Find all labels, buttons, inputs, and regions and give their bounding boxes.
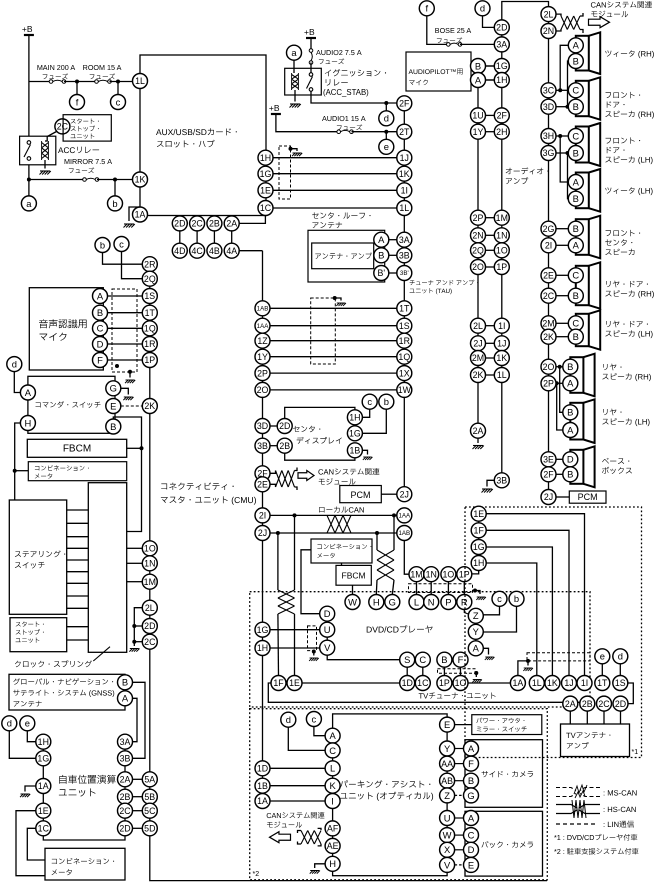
pin 1N amp bbox=[494, 228, 509, 243]
label fuse bbox=[437, 37, 462, 43]
pin 1L amp bbox=[494, 368, 509, 383]
wire bbox=[276, 114, 337, 132]
svg-text:1A: 1A bbox=[38, 781, 49, 791]
svg-text:3B: 3B bbox=[120, 753, 131, 763]
svg-text:1R: 1R bbox=[399, 336, 410, 346]
pin B rear speaker LH bbox=[563, 405, 578, 420]
wire bbox=[376, 533, 378, 550]
svg-text:2L: 2L bbox=[473, 321, 483, 331]
CAN module arrow bbox=[589, 17, 610, 28]
svg-text:PCM: PCM bbox=[578, 492, 598, 502]
connector d bbox=[281, 712, 296, 727]
wire bbox=[274, 173, 397, 175]
wire bbox=[134, 641, 142, 643]
pin B camera bbox=[464, 773, 479, 788]
svg-text:a: a bbox=[26, 198, 32, 209]
pin C front door speaker RH bbox=[568, 83, 583, 98]
pin 2E CMU bbox=[255, 477, 270, 492]
pin 2D position unit bbox=[118, 821, 133, 836]
svg-text:1J: 1J bbox=[497, 338, 506, 348]
wire bbox=[557, 383, 563, 430]
wire bbox=[311, 91, 397, 103]
pin G commander bbox=[106, 381, 121, 396]
pin 1Y CMU bbox=[255, 349, 270, 364]
wire bbox=[422, 667, 424, 675]
svg-text:B: B bbox=[567, 407, 573, 418]
junction bbox=[293, 513, 297, 517]
wire bbox=[556, 295, 568, 297]
wire bbox=[475, 591, 480, 595]
pin 2F bbox=[541, 467, 556, 482]
pin 2K bbox=[541, 329, 556, 344]
pin 1J amp bbox=[494, 336, 509, 351]
svg-text:1Q: 1Q bbox=[144, 323, 156, 333]
svg-text:C: C bbox=[419, 654, 426, 665]
wire bbox=[76, 82, 78, 95]
pin 1AA bbox=[397, 508, 412, 523]
svg-text:U: U bbox=[444, 812, 451, 823]
wire bbox=[16, 811, 45, 876]
svg-text:H: H bbox=[373, 596, 380, 607]
junction bbox=[132, 624, 136, 628]
wire bbox=[15, 470, 29, 472]
junction bbox=[27, 178, 31, 182]
svg-text:1N: 1N bbox=[426, 569, 437, 579]
svg-text:(ACC_STAB): (ACC_STAB) bbox=[323, 88, 369, 97]
wire R-Z bbox=[464, 609, 471, 615]
svg-text:1K: 1K bbox=[399, 169, 410, 179]
wire bbox=[556, 29, 561, 31]
wire bbox=[270, 425, 277, 427]
svg-text:G: G bbox=[389, 596, 396, 607]
wire bbox=[298, 842, 302, 845]
ground bbox=[290, 104, 301, 108]
label GNSS2 bbox=[13, 690, 114, 697]
wire bbox=[430, 582, 432, 595]
label steering1 bbox=[15, 550, 65, 557]
pin B antenna bbox=[374, 248, 389, 263]
svg-text:2N: 2N bbox=[472, 230, 483, 240]
svg-text:1T: 1T bbox=[145, 308, 156, 318]
svg-text:1I: 1I bbox=[401, 185, 408, 195]
label position unit1 bbox=[59, 775, 116, 784]
pin C DVD bbox=[415, 652, 430, 667]
wire bbox=[270, 785, 325, 787]
legend HS-CAN lines3 bbox=[579, 805, 600, 809]
pin B' antenna bbox=[374, 266, 389, 281]
svg-text:1D: 1D bbox=[257, 763, 268, 773]
pin I parking bbox=[325, 794, 340, 809]
wire V-S bbox=[327, 655, 400, 660]
junction bbox=[312, 650, 316, 654]
HS-CAN twisted pair bbox=[377, 550, 394, 580]
wire bbox=[556, 473, 563, 475]
svg-text:2J: 2J bbox=[258, 528, 267, 538]
pin 4C hub mate bbox=[190, 243, 205, 258]
junction bbox=[333, 296, 337, 300]
svg-text:W: W bbox=[348, 596, 357, 607]
pin 2A hub bbox=[224, 216, 239, 231]
svg-text:1AA: 1AA bbox=[398, 513, 411, 520]
svg-text:A: A bbox=[573, 40, 580, 51]
svg-text:c: c bbox=[119, 238, 124, 249]
pin R DVD bbox=[457, 595, 472, 610]
connector d bbox=[2, 716, 17, 731]
relay contact bbox=[24, 141, 31, 161]
connector a bbox=[21, 196, 36, 211]
label note2 bbox=[554, 848, 638, 855]
wire bbox=[455, 794, 464, 796]
label steering2 bbox=[15, 562, 45, 569]
ground bbox=[20, 794, 30, 797]
label tweeter LH bbox=[605, 187, 652, 195]
relay coil bbox=[42, 141, 49, 160]
svg-text:3H: 3H bbox=[543, 131, 554, 141]
label ignition relay2 bbox=[326, 79, 348, 85]
wire bbox=[455, 817, 464, 819]
junction bbox=[566, 105, 570, 109]
pin 2K bbox=[471, 368, 486, 383]
svg-text:K: K bbox=[329, 780, 336, 791]
svg-text:D: D bbox=[324, 608, 331, 619]
pin 3H bbox=[541, 129, 556, 144]
wire bbox=[463, 582, 465, 595]
connector d bbox=[613, 649, 628, 664]
wire bbox=[483, 606, 499, 615]
wire rung bbox=[67, 582, 89, 584]
bus wire bbox=[124, 742, 126, 836]
wire bbox=[567, 61, 570, 107]
label LIN bbox=[604, 821, 634, 828]
svg-text:1Y: 1Y bbox=[257, 352, 268, 362]
svg-text:2H: 2H bbox=[496, 127, 507, 137]
wire bbox=[556, 228, 568, 230]
wire bbox=[270, 647, 320, 649]
wire rung bbox=[67, 639, 89, 641]
wire 2B-1B bbox=[285, 453, 355, 460]
pin 1Z CMU bbox=[255, 333, 270, 348]
pin A tweeter RH bbox=[568, 38, 583, 53]
wire bbox=[9, 731, 36, 759]
svg-text:2A: 2A bbox=[226, 219, 237, 229]
svg-text:+B: +B bbox=[304, 27, 315, 37]
connector b bbox=[509, 591, 524, 606]
svg-text:1J: 1J bbox=[564, 678, 573, 688]
label back camera bbox=[482, 841, 534, 848]
wire bbox=[416, 582, 418, 595]
wire bbox=[270, 340, 397, 342]
svg-text:*2: *2 bbox=[253, 871, 260, 878]
svg-text:*1: *1 bbox=[632, 749, 639, 756]
svg-text:b: b bbox=[112, 198, 117, 209]
label stop bbox=[71, 126, 99, 132]
pin E camera bbox=[464, 857, 479, 872]
pin 2J CMU bbox=[255, 526, 270, 541]
label start2c bbox=[16, 638, 40, 643]
wire bbox=[28, 35, 30, 136]
wire bbox=[475, 673, 477, 677]
wire bbox=[117, 82, 119, 95]
wire bbox=[385, 132, 387, 140]
pin B tweeter LH bbox=[568, 191, 583, 206]
wire bbox=[556, 336, 568, 338]
wire bbox=[270, 629, 320, 631]
wire bbox=[556, 135, 568, 137]
wire FBCM-W bbox=[352, 585, 354, 594]
pin L parking bbox=[325, 761, 340, 776]
pin 3B' TAU bbox=[397, 266, 412, 281]
junction bbox=[473, 589, 477, 593]
pin W DVD bbox=[345, 595, 360, 610]
wire bbox=[318, 828, 321, 830]
junction bbox=[558, 365, 562, 369]
pin 1H amp bbox=[494, 73, 509, 88]
pin 2H amp bbox=[494, 124, 509, 139]
wire bbox=[127, 581, 143, 583]
svg-text:1X: 1X bbox=[399, 368, 410, 378]
wire bbox=[460, 667, 462, 675]
svg-text:U: U bbox=[324, 624, 331, 635]
bus wire bbox=[548, 7, 550, 497]
wire bbox=[486, 342, 495, 344]
label combination meter2b bbox=[52, 869, 72, 875]
pin 1I tuner bbox=[577, 676, 592, 691]
junction bbox=[558, 134, 562, 138]
pin U parking bbox=[440, 811, 455, 826]
svg-text:2D: 2D bbox=[615, 699, 626, 709]
ground bbox=[363, 457, 373, 460]
wire bbox=[133, 698, 138, 741]
svg-text:2C: 2C bbox=[144, 637, 156, 647]
svg-text:A: A bbox=[475, 74, 482, 85]
wire bbox=[134, 625, 142, 627]
start-stop unit box bbox=[63, 115, 111, 141]
pin 2P bbox=[471, 210, 486, 225]
pin D bass box bbox=[563, 452, 578, 467]
pin 2P bbox=[541, 376, 556, 391]
pin Y DVD bbox=[468, 624, 483, 639]
pin 1H bbox=[258, 150, 273, 165]
pin 1N CMU bbox=[142, 556, 157, 571]
svg-text:AA: AA bbox=[441, 759, 453, 769]
svg-text:2N: 2N bbox=[543, 26, 554, 36]
label fuse bbox=[43, 73, 68, 79]
pin AA parking bbox=[440, 756, 455, 771]
label MS-CAN bbox=[604, 790, 637, 795]
svg-text:E: E bbox=[110, 400, 116, 411]
wire 5D out bbox=[150, 836, 547, 881]
svg-text:e: e bbox=[25, 718, 30, 729]
wire bbox=[108, 327, 143, 329]
wire bbox=[270, 767, 325, 769]
pin C rear door speaker LH bbox=[568, 316, 583, 331]
svg-text:1H: 1H bbox=[257, 643, 268, 653]
pin E parking bbox=[440, 717, 455, 732]
wire bbox=[487, 480, 494, 486]
pin 1AB bbox=[397, 526, 412, 541]
wire bbox=[196, 231, 198, 243]
wire bbox=[270, 325, 397, 327]
wire bbox=[483, 16, 495, 28]
pin 2A mate bbox=[471, 423, 486, 438]
wire bbox=[44, 160, 46, 169]
svg-text:B: B bbox=[122, 677, 128, 688]
shield bbox=[409, 584, 473, 593]
pin 1C position unit bbox=[36, 821, 51, 836]
ground bbox=[472, 680, 482, 683]
ground bbox=[336, 303, 346, 306]
wire bbox=[133, 810, 143, 812]
pin 1G bbox=[258, 166, 273, 181]
bus wire bbox=[475, 616, 477, 649]
pin G DVD bbox=[385, 595, 400, 610]
svg-text:1Y: 1Y bbox=[473, 127, 484, 137]
wire bbox=[486, 217, 495, 219]
pin 1F DVD bbox=[271, 676, 286, 691]
wire bbox=[25, 786, 36, 792]
legend MS-CAN lines3 bbox=[580, 788, 600, 791]
pin A antenna bbox=[374, 232, 389, 247]
svg-text:2B: 2B bbox=[582, 699, 593, 709]
pin 1Q CMU bbox=[142, 321, 157, 336]
svg-text:2C: 2C bbox=[543, 291, 555, 301]
wire bbox=[310, 38, 312, 49]
wire bbox=[455, 834, 464, 836]
svg-text:B: B bbox=[573, 147, 579, 158]
ground bbox=[476, 597, 486, 600]
svg-text:5C: 5C bbox=[144, 806, 156, 816]
bus wire bbox=[501, 27, 503, 480]
pin Y parking bbox=[440, 741, 455, 756]
svg-text:1C: 1C bbox=[417, 678, 429, 688]
pin 2C position unit bbox=[118, 803, 133, 818]
label AUDIOPILOT bbox=[409, 69, 463, 75]
pin 2L CMU bbox=[142, 600, 157, 615]
svg-text:B: B bbox=[567, 469, 573, 480]
wire bbox=[486, 325, 495, 327]
wire bbox=[294, 614, 296, 676]
pin 4A hub mate bbox=[224, 243, 239, 258]
label front center speaker bbox=[606, 230, 641, 236]
wire B commander bbox=[113, 417, 141, 532]
svg-text:B: B bbox=[573, 193, 579, 204]
wire bbox=[486, 514, 584, 676]
svg-text:2F: 2F bbox=[399, 98, 410, 108]
wire bbox=[362, 409, 369, 417]
svg-text:PCM: PCM bbox=[351, 490, 371, 500]
pin 4B hub mate bbox=[207, 243, 222, 258]
wire rung bbox=[67, 571, 89, 573]
HS-CAN twisted pair bbox=[278, 590, 295, 614]
wire bbox=[455, 748, 464, 750]
svg-text:2B: 2B bbox=[279, 441, 290, 451]
svg-text:A: A bbox=[473, 643, 480, 654]
speaker front door speaker LH bbox=[576, 123, 600, 166]
svg-text:C: C bbox=[572, 85, 579, 96]
pin 1S CMU bbox=[142, 289, 157, 304]
wire bbox=[569, 711, 571, 724]
label rear door speaker LH bbox=[606, 321, 648, 328]
junction bbox=[113, 178, 117, 182]
wire bbox=[27, 828, 45, 860]
wire bbox=[270, 484, 276, 487]
pin 2F TAU bbox=[397, 96, 412, 111]
wire bbox=[486, 131, 495, 133]
wire bbox=[28, 165, 30, 196]
wire bbox=[133, 827, 143, 829]
label bass box bbox=[602, 458, 629, 464]
svg-text:1E: 1E bbox=[38, 806, 49, 816]
wire bbox=[560, 136, 568, 182]
junction bbox=[375, 531, 379, 535]
wire bbox=[315, 864, 325, 868]
svg-text:AF: AF bbox=[327, 824, 339, 834]
wire bbox=[313, 652, 315, 656]
wire bbox=[114, 180, 116, 196]
label fuse bbox=[69, 167, 94, 173]
label HS-CAN bbox=[604, 807, 636, 812]
pin Z parking bbox=[440, 788, 455, 803]
svg-text:3G: 3G bbox=[543, 148, 555, 158]
svg-text:AE: AE bbox=[327, 841, 339, 851]
wire 1H-1P bbox=[472, 571, 479, 574]
pin 2E bbox=[541, 268, 556, 283]
label bass box bbox=[602, 467, 632, 474]
dashed box parking option *2 bbox=[250, 709, 548, 880]
pin 2D amp bbox=[494, 20, 509, 35]
wire rung bbox=[67, 547, 89, 549]
pin 2R CMU bbox=[142, 257, 157, 272]
wire bbox=[108, 312, 143, 314]
svg-text:1P: 1P bbox=[439, 678, 450, 688]
pin B rear door speaker RH bbox=[568, 288, 583, 303]
svg-text:3A: 3A bbox=[496, 40, 507, 50]
pin AB parking bbox=[440, 773, 455, 788]
wire bbox=[129, 372, 131, 378]
pin 1B display bbox=[347, 443, 362, 458]
pin 1C tuner bbox=[415, 676, 430, 691]
wire 1A drain bbox=[518, 661, 528, 676]
svg-text:1O: 1O bbox=[496, 245, 508, 255]
pin 1E bbox=[258, 183, 273, 198]
wire rung bbox=[67, 522, 89, 524]
wire bbox=[213, 231, 215, 243]
svg-text:2M: 2M bbox=[472, 353, 484, 363]
pin 3A position unit bbox=[118, 734, 133, 749]
wire bbox=[270, 307, 397, 309]
svg-text:1G: 1G bbox=[37, 753, 49, 763]
wire bbox=[45, 132, 57, 142]
svg-text:2D: 2D bbox=[496, 23, 507, 33]
ground bbox=[292, 153, 302, 156]
wire bbox=[277, 614, 280, 676]
pin 1K bbox=[133, 172, 148, 187]
wire bbox=[471, 79, 494, 81]
pin 1I amp bbox=[494, 318, 509, 333]
wire bbox=[556, 14, 561, 16]
speaker rear door speaker RH bbox=[576, 262, 600, 308]
pin 2J bbox=[471, 336, 486, 351]
svg-text:1S: 1S bbox=[615, 678, 626, 688]
svg-text:B: B bbox=[441, 654, 447, 665]
wire bbox=[556, 322, 568, 324]
svg-text:B: B bbox=[378, 250, 384, 261]
svg-text:B: B bbox=[468, 775, 474, 786]
junction bbox=[474, 671, 478, 675]
wire bbox=[295, 468, 298, 471]
svg-text:3B: 3B bbox=[399, 250, 410, 260]
wire bbox=[447, 582, 449, 595]
